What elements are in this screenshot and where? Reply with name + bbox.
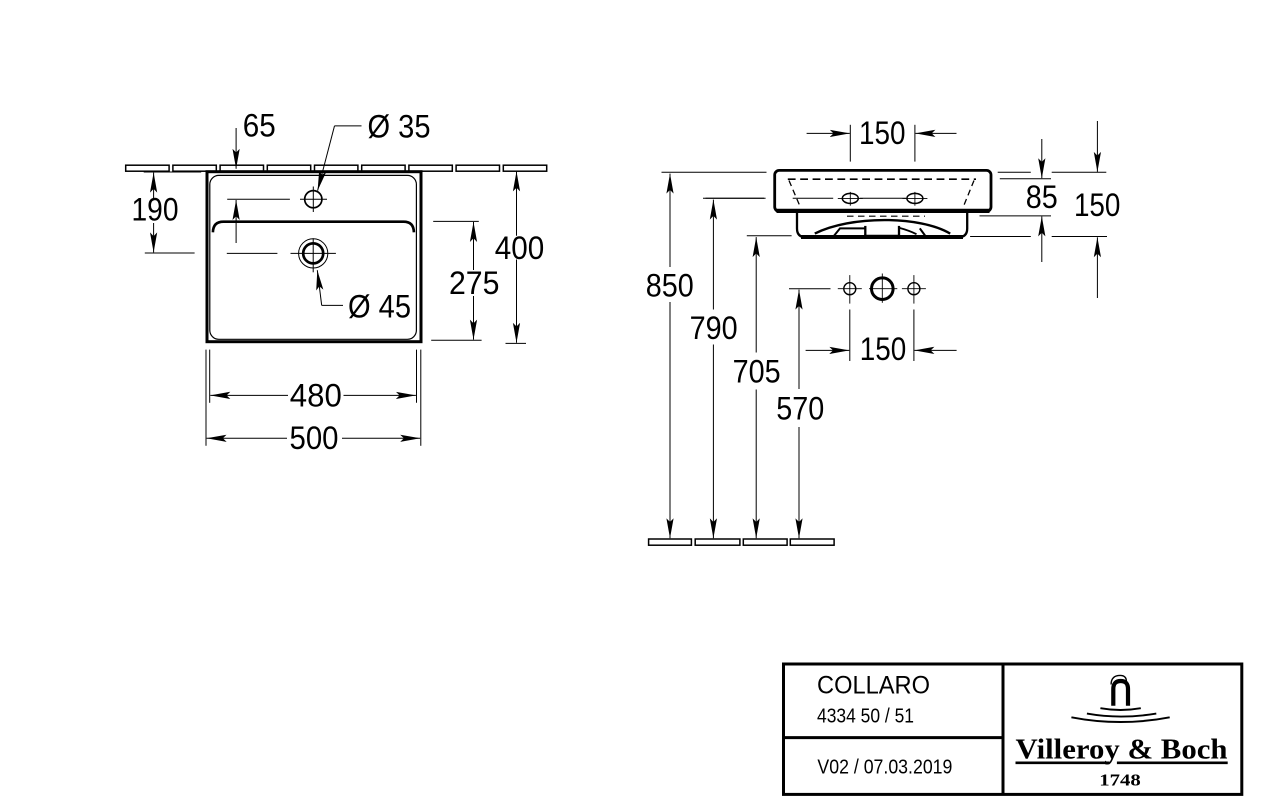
svg-text:Ø 45: Ø 45 [348,288,411,324]
svg-text:275: 275 [449,265,500,301]
svg-text:150: 150 [860,331,907,367]
svg-text:190: 190 [132,192,179,228]
svg-text:850: 850 [646,267,694,303]
svg-text:65: 65 [243,107,276,143]
svg-text:COLLARO: COLLARO [817,671,930,699]
svg-text:150: 150 [1074,187,1121,223]
svg-text:Ø 35: Ø 35 [368,108,431,144]
svg-text:480: 480 [290,377,342,413]
svg-text:570: 570 [776,391,824,427]
svg-text:1748: 1748 [1099,770,1141,789]
svg-text:Villeroy & Boch: Villeroy & Boch [1016,734,1228,765]
svg-text:150: 150 [859,115,906,151]
svg-text:790: 790 [690,310,738,346]
svg-text:85: 85 [1026,179,1058,215]
svg-text:400: 400 [495,230,545,266]
svg-text:500: 500 [290,420,339,456]
svg-text:4334 50 / 51: 4334 50 / 51 [817,706,914,728]
svg-text:705: 705 [733,353,781,389]
svg-text:V02 / 07.03.2019: V02 / 07.03.2019 [817,756,952,779]
